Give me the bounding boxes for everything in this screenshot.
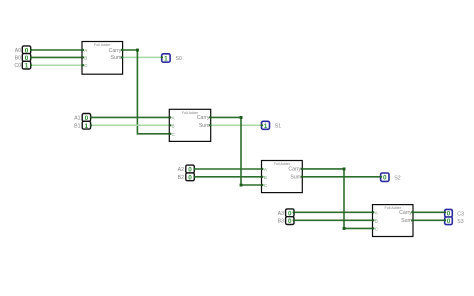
input B1 <box>82 121 90 130</box>
label A0 <box>15 48 21 54</box>
node U4.B pin <box>372 219 374 221</box>
node U2.C pin <box>169 133 171 135</box>
input A1 <box>82 114 90 123</box>
wire C0 to U1.C <box>31 64 83 66</box>
label S2 <box>394 176 400 182</box>
label B1 <box>74 123 80 129</box>
node S2 in pin <box>380 176 382 178</box>
svg-text:0: 0 <box>288 218 292 225</box>
node U2.A pin <box>169 116 171 118</box>
svg-text:Carry: Carry <box>109 48 122 54</box>
node U2.Sum pin <box>209 124 211 126</box>
svg-text:A2: A2 <box>178 167 184 173</box>
svg-text:1: 1 <box>85 123 89 130</box>
label A2 <box>178 167 184 173</box>
wire B3 to U4.B <box>294 219 374 221</box>
svg-text:1: 1 <box>264 123 268 130</box>
node B1 out pin <box>90 124 92 126</box>
svg-text:B: B <box>264 175 267 180</box>
svg-text:S2: S2 <box>394 176 400 182</box>
node B3 out pin <box>293 219 295 221</box>
wire B0 to U1.B <box>31 56 83 58</box>
input B0 <box>22 54 30 62</box>
node U1.Sum pin <box>121 56 123 58</box>
node U1.A pin <box>82 49 84 51</box>
wire U4.Carry to C3 <box>413 211 445 213</box>
wire A1 to U2.A <box>91 116 170 118</box>
label B2 <box>178 175 184 181</box>
node U3.B pin <box>261 176 263 178</box>
full adder U3 <box>262 161 303 193</box>
svg-text:1: 1 <box>25 63 29 70</box>
node B0 out pin <box>30 56 32 58</box>
svg-text:A3: A3 <box>278 211 284 217</box>
output S2 <box>381 173 389 182</box>
node U3.C pin <box>261 184 263 186</box>
node S1 in pin <box>261 124 263 126</box>
svg-text:B2: B2 <box>178 175 184 181</box>
node U2 carry bend bottom <box>240 184 243 187</box>
node U1.Carry pin <box>121 49 123 51</box>
input A2 <box>186 165 195 174</box>
label B3 <box>278 219 284 225</box>
node U4.C pin <box>372 227 374 229</box>
svg-text:B: B <box>375 218 378 223</box>
svg-text:0: 0 <box>447 218 451 225</box>
node U3 carry bend top <box>343 168 346 171</box>
svg-text:0: 0 <box>188 174 192 181</box>
node A0 out pin <box>30 49 32 51</box>
svg-text:1: 1 <box>164 56 168 63</box>
label S1 <box>275 124 281 130</box>
svg-text:Sum: Sum <box>401 218 412 224</box>
svg-text:Sum: Sum <box>111 55 122 61</box>
wire U1.Sum to S0 <box>123 56 162 58</box>
full adder U2 <box>169 109 210 141</box>
node U4.Carry pin <box>411 211 413 213</box>
svg-text:C3: C3 <box>457 211 464 217</box>
label S0 <box>176 56 182 62</box>
label S3 <box>457 219 463 225</box>
wire U1.Carry to U2.C <box>123 50 170 134</box>
output S0 <box>162 54 170 63</box>
svg-text:Full Adder: Full Adder <box>94 43 111 47</box>
wire B1 to U2.B <box>91 124 170 126</box>
node A1 out pin <box>90 116 92 118</box>
node U3.Carry pin <box>301 168 303 170</box>
full adder U4 <box>373 205 414 237</box>
label C0 <box>14 63 21 69</box>
node C0 out pin <box>30 64 32 66</box>
svg-text:0: 0 <box>383 175 387 182</box>
svg-text:Carry: Carry <box>197 115 210 121</box>
wire U2.Carry to U3.C <box>211 117 263 185</box>
input B3 <box>286 217 294 226</box>
svg-text:B0: B0 <box>15 56 21 62</box>
svg-text:Carry: Carry <box>399 210 412 216</box>
label A3 <box>278 211 284 217</box>
output S3 <box>445 217 453 225</box>
input A3 <box>286 209 294 218</box>
node S3 in pin <box>444 219 446 221</box>
svg-text:Sum: Sum <box>199 123 210 129</box>
node U4.A pin <box>372 211 374 213</box>
wire B2 to U3.B <box>194 176 262 178</box>
label C3 <box>457 211 464 217</box>
label A1 <box>74 116 80 122</box>
node U1.B pin <box>82 56 84 58</box>
node B2 out pin <box>193 176 195 178</box>
svg-text:B: B <box>172 123 175 128</box>
node U1 carry bend <box>136 49 139 52</box>
output C3 <box>445 209 453 217</box>
svg-text:S3: S3 <box>457 219 463 225</box>
wire U2.Sum to S1 <box>211 124 262 126</box>
wire A2 to U3.A <box>194 168 262 170</box>
svg-text:Full Adder: Full Adder <box>274 162 291 166</box>
full adder U1 <box>82 42 123 75</box>
svg-text:A1: A1 <box>74 116 80 122</box>
node U4.Sum pin <box>411 219 413 221</box>
node U2 carry bend top <box>240 116 243 119</box>
svg-text:B: B <box>84 55 87 60</box>
node U2.B pin <box>169 124 171 126</box>
svg-text:B1: B1 <box>74 123 80 129</box>
input C0 <box>22 61 30 69</box>
input B2 <box>186 173 195 182</box>
node S0 in pin <box>161 56 163 58</box>
wire A3 to U4.A <box>294 211 374 213</box>
wire U4.Sum to S3 <box>413 219 445 221</box>
svg-text:B3: B3 <box>278 219 284 225</box>
svg-text:A0: A0 <box>15 48 21 54</box>
wire U3.Sum to S2 <box>302 176 380 178</box>
svg-text:Carry: Carry <box>288 167 301 173</box>
node U1.C pin <box>82 64 84 66</box>
input A0 <box>22 46 30 55</box>
svg-text:S1: S1 <box>275 124 281 130</box>
svg-text:Sum: Sum <box>290 175 301 181</box>
output S1 <box>262 121 270 130</box>
wire A0 to U1.A <box>31 49 83 51</box>
node U2.Carry pin <box>209 116 211 118</box>
node U3 carry bend bottom <box>343 227 346 230</box>
svg-text:C0: C0 <box>14 63 21 69</box>
node C3 in pin <box>444 211 446 213</box>
node U3.Sum pin <box>301 176 303 178</box>
wire U3.Carry to U4.C <box>302 169 373 229</box>
label B0 <box>15 56 21 62</box>
node A3 out pin <box>293 211 295 213</box>
node U3.A pin <box>261 168 263 170</box>
node A2 out pin <box>193 168 195 170</box>
svg-text:S0: S0 <box>176 56 182 62</box>
